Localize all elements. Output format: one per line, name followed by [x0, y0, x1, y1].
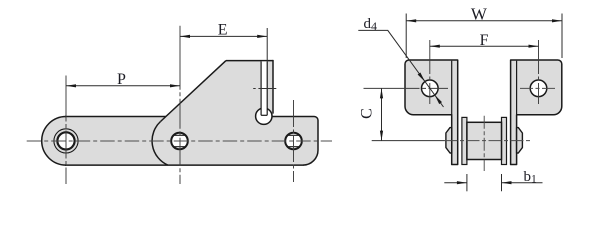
pin 3 flats	[288, 134, 300, 136]
pin hole 1 roller (outer circle)	[54, 129, 78, 153]
dimension W arrowheads	[406, 19, 416, 22]
pin head left	[446, 128, 452, 153]
dimension F arrowheads	[430, 45, 440, 48]
hole vertical centerline left / F extension	[429, 40, 431, 104]
chain horizontal centerline / C bottom extension	[372, 140, 445, 142]
attachment bolt slot (open vertical slot)	[261, 61, 267, 115]
right bent attachment plate with web	[511, 60, 562, 165]
slot horizontal centerline	[253, 88, 256, 90]
pin 2 flats	[174, 134, 186, 136]
svg-text:E: E	[218, 22, 228, 39]
centerline pin 3	[293, 100, 295, 182]
hole horizontal centerline left / C top extension	[364, 87, 449, 89]
inner link plate right	[502, 117, 507, 164]
hole vertical centerline right / F extension	[538, 40, 540, 104]
chain link plate with bent attachment: silhouette fill	[42, 61, 318, 166]
slot left edge	[260, 61, 262, 115]
svg-text:F: F	[480, 32, 489, 49]
link plate bottom edge	[65, 164, 304, 166]
d4 arrowheads on circle	[418, 73, 425, 82]
slot right edge	[266, 61, 268, 115]
pin 3 (right)	[285, 133, 302, 150]
left bent attachment plate with web	[405, 60, 458, 165]
E right extension line	[266, 28, 268, 61]
pin hole 1 bushing (inner circle)	[57, 132, 74, 149]
dimension E arrowheads	[180, 35, 190, 38]
centerline pin 1	[65, 76, 67, 185]
roller	[467, 122, 502, 159]
link plate left rounded end	[42, 117, 66, 166]
svg-text:1: 1	[531, 173, 537, 185]
chain vertical centerline	[483, 116, 485, 171]
svg-text:W: W	[471, 4, 488, 23]
dimension F line	[430, 45, 539, 47]
pin 2 (middle)	[171, 133, 188, 150]
d4 underline and leader line	[358, 30, 443, 107]
attachment plate rounded end arc around middle pin	[152, 122, 168, 166]
dimension C arrowheads	[380, 88, 383, 98]
dimension W line	[406, 20, 562, 22]
keyhole hole at bottom of attachment slot	[256, 108, 272, 124]
b1 arrowheads	[457, 181, 467, 184]
attachment hole right (d4)	[530, 80, 547, 97]
attachment hole left (d4)	[422, 80, 439, 97]
pin head right	[517, 128, 523, 153]
attachment right edge	[272, 60, 274, 114]
left plate bend line	[451, 61, 453, 115]
link plate right end with rounded corners	[272, 117, 318, 166]
svg-text:C: C	[359, 108, 376, 119]
svg-text:b: b	[524, 169, 532, 185]
hole horizontal centerline right	[520, 87, 557, 89]
W extension lines	[405, 14, 407, 59]
attachment top edge	[226, 60, 273, 62]
dimension E line	[180, 35, 267, 37]
horizontal centerline of chain (left view)	[27, 140, 332, 142]
slot bottom line	[261, 114, 267, 116]
dimension P line	[66, 85, 180, 87]
right plate bend line	[516, 61, 518, 115]
centerline pin 2 / extension for P and E	[179, 26, 181, 184]
svg-text:P: P	[117, 71, 126, 88]
inner link plate left	[462, 117, 467, 164]
dimension b1	[466, 174, 468, 191]
dimension C line	[381, 88, 383, 140]
attachment diagonal edge	[161, 61, 227, 122]
dimension P arrowheads	[66, 84, 76, 87]
link plate top edge (left of attachment)	[65, 116, 166, 118]
